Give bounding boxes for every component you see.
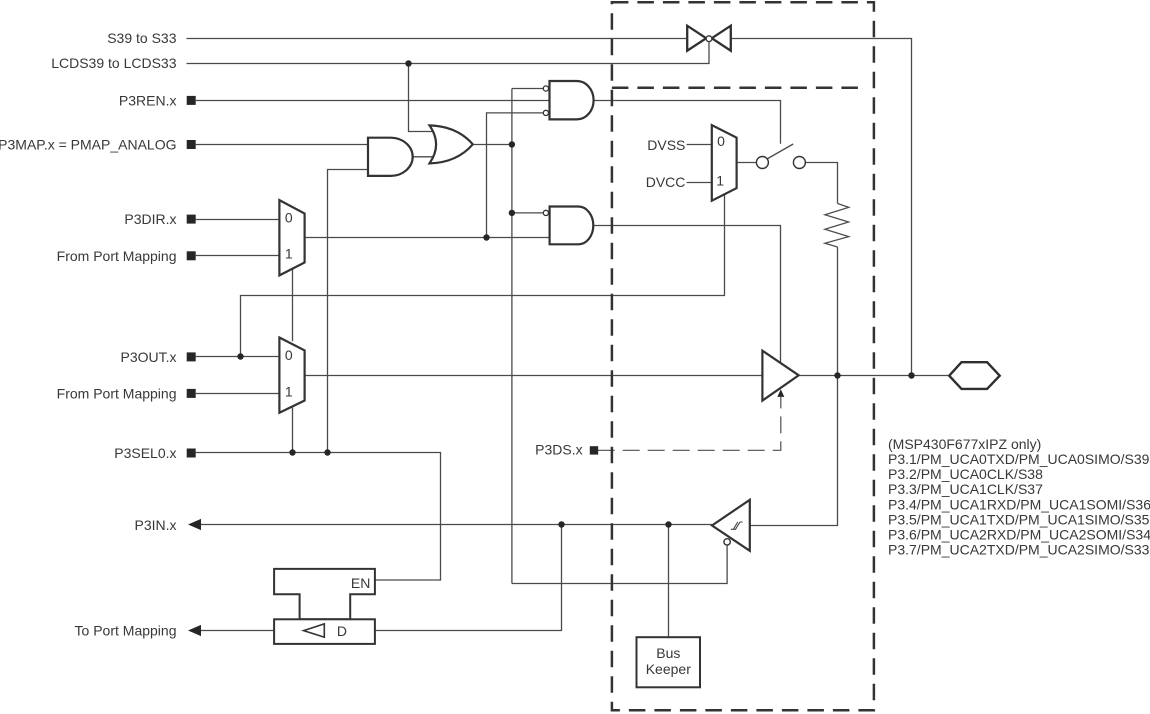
- svg-text:0: 0: [285, 209, 293, 225]
- svg-text:P3.3/PM_UCA1CLK/S37: P3.3/PM_UCA1CLK/S37: [888, 481, 1043, 497]
- svg-text:P3IN.x: P3IN.x: [134, 517, 176, 533]
- svg-text:From Port Mapping: From Port Mapping: [57, 385, 177, 401]
- svg-text:P3DS.x: P3DS.x: [535, 442, 582, 458]
- svg-text:DVCC: DVCC: [646, 174, 686, 190]
- svg-text:P3MAP.x = PMAP_ANALOG: P3MAP.x = PMAP_ANALOG: [0, 137, 177, 153]
- svg-text:P3.5/PM_UCA1TXD/PM_UCA1SIMO/S3: P3.5/PM_UCA1TXD/PM_UCA1SIMO/S35: [888, 511, 1150, 527]
- svg-text:P3.4/PM_UCA1RXD/PM_UCA1SOMI/S3: P3.4/PM_UCA1RXD/PM_UCA1SOMI/S36: [888, 496, 1150, 512]
- svg-text:Keeper: Keeper: [646, 661, 691, 677]
- svg-text:P3.2/PM_UCA0CLK/S38: P3.2/PM_UCA0CLK/S38: [888, 466, 1043, 482]
- svg-text:0: 0: [717, 133, 725, 149]
- svg-text:P3.1/PM_UCA0TXD/PM_UCA0SIMO/S3: P3.1/PM_UCA0TXD/PM_UCA0SIMO/S39: [888, 451, 1150, 467]
- svg-text:1: 1: [716, 173, 724, 189]
- svg-text:1: 1: [285, 384, 293, 400]
- svg-text:P3.6/PM_UCA2RXD/PM_UCA2SOMI/S3: P3.6/PM_UCA2RXD/PM_UCA2SOMI/S34: [888, 526, 1150, 542]
- svg-text:(MSP430F677xIPZ only): (MSP430F677xIPZ only): [888, 436, 1041, 452]
- svg-text:EN: EN: [351, 575, 370, 591]
- svg-text:D: D: [337, 623, 347, 639]
- svg-text:0: 0: [285, 347, 293, 363]
- svg-text:To Port Mapping: To Port Mapping: [75, 622, 177, 638]
- svg-text:P3.7/PM_UCA2TXD/PM_UCA2SIMO/S3: P3.7/PM_UCA2TXD/PM_UCA2SIMO/S33: [888, 542, 1150, 558]
- svg-text:P3OUT.x: P3OUT.x: [120, 349, 176, 365]
- svg-text:P3SEL0.x: P3SEL0.x: [114, 445, 176, 461]
- svg-text:S39 to S33: S39 to S33: [107, 30, 176, 46]
- svg-text:From Port Mapping: From Port Mapping: [57, 248, 177, 264]
- svg-text:P3REN.x: P3REN.x: [119, 92, 177, 108]
- svg-text:Bus: Bus: [656, 645, 680, 661]
- svg-text:LCDS39 to LCDS33: LCDS39 to LCDS33: [51, 55, 177, 71]
- svg-text:P3DIR.x: P3DIR.x: [124, 211, 176, 227]
- svg-text:DVSS: DVSS: [647, 137, 685, 153]
- svg-text:1: 1: [285, 246, 293, 262]
